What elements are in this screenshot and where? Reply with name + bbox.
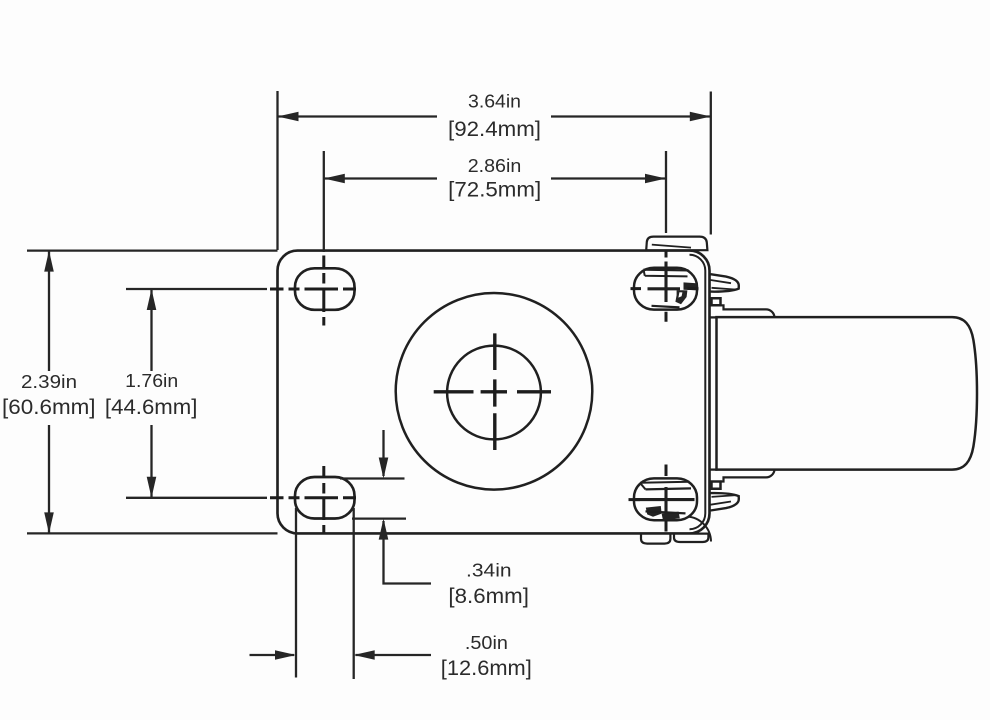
brake tab top face line [711, 280, 732, 283]
arrowhead 3.64 left [278, 112, 299, 122]
centerline slot top-left vertical [322, 256, 325, 326]
screw dark wedge lower right [675, 290, 687, 304]
extension line slot right edge down [353, 508, 355, 679]
svg-text:3.64in: 3.64in [468, 92, 521, 112]
centerlines [434, 333, 551, 450]
extension line slot centers left bottom [126, 497, 267, 499]
extension line screw top-right vertical [665, 151, 667, 233]
svg-text:.34in: .34in [466, 560, 512, 580]
svg-text:1.76in: 1.76in [125, 371, 178, 391]
svg-text:2.39in: 2.39in [21, 372, 77, 392]
brake tab top inner line [712, 288, 737, 290]
arrowhead 3.64 right [690, 112, 711, 122]
svg-text:[8.6mm]: [8.6mm] [448, 585, 529, 608]
arrowhead .34 up [379, 519, 389, 540]
arrowhead 2.39 bottom [44, 512, 54, 533]
svg-text:[92.4mm]: [92.4mm] [448, 118, 541, 141]
screw bottom slot line upper [640, 482, 690, 490]
dimension line 3.64in [278, 115, 711, 117]
screw bottom dark wedge right [662, 512, 680, 521]
centerline screw bottom-right vertical [665, 465, 668, 532]
screw bottom chord [646, 511, 686, 513]
fork bottom bend arc [687, 517, 711, 542]
extension line slot left edge down [295, 508, 297, 678]
centerline slot top-left horizontal [270, 288, 356, 291]
screw crosshair horizontal bar [648, 287, 681, 290]
fork foot lobe right (below plate) [674, 534, 708, 542]
screw dark wedge upper right [684, 282, 697, 290]
arrowhead .34 down [379, 458, 389, 479]
brake tab top [711, 274, 739, 291]
arrowhead 2.86 right [645, 174, 666, 184]
centerline slot bottom-left vertical [322, 466, 325, 533]
svg-text:[44.6mm]: [44.6mm] [105, 396, 198, 419]
svg-text:[60.6mm]: [60.6mm] [2, 396, 96, 419]
swivel raceway outer circle [396, 293, 593, 490]
arrowhead 1.76 bottom [147, 477, 157, 498]
screw bottom chord [652, 306, 680, 308]
arrowhead .50 left [354, 650, 375, 660]
arrowhead 1.76 top [147, 289, 157, 310]
wheel top edge left stub [711, 316, 718, 318]
brake tab bottom [711, 493, 739, 510]
fork foot lobe left (below plate) [641, 534, 670, 544]
dimension texts [2, 92, 541, 680]
screw bottom crosshair horizontal bar [636, 498, 695, 501]
screw bottom crosshair vertical bar [664, 487, 667, 513]
wheel bottom edge left stub [711, 468, 718, 470]
wheel body (top view, right side) [717, 317, 978, 470]
arrowheads [44, 112, 711, 660]
centerline screw top-right horizontal left dashes [631, 287, 699, 290]
center crosshair vertical [493, 333, 496, 450]
screw bottom dark wedge left [646, 506, 662, 517]
wheel hub bump top [712, 298, 721, 305]
wheel hub bump bottom [712, 482, 721, 489]
wheel hub step top [721, 305, 775, 317]
screw bottom slot line lower [646, 488, 692, 489]
centerline screw bottom-right horizontal left dashes [629, 498, 641, 501]
arrowhead .50 right [275, 650, 296, 660]
kingpin inner circle [447, 346, 541, 440]
extension line plate right top [710, 92, 712, 235]
extension line plate top to left [27, 249, 278, 251]
arrowhead 2.39 top [44, 251, 54, 272]
screw slot line upper [644, 268, 689, 271]
dimension line .34in upper [340, 477, 405, 479]
arrowhead 2.86 left [324, 174, 345, 184]
brake tab bottom inner line [712, 495, 737, 497]
screw slot line lower [644, 270, 688, 277]
centerline screw top-right vertical [665, 252, 668, 322]
centerline slot bottom-left horizontal [270, 496, 356, 499]
wheel hub step bottom [721, 469, 775, 481]
brake tab bottom face line [711, 502, 732, 505]
svg-text:2.86in: 2.86in [468, 156, 522, 176]
dimension line 2.86in [324, 177, 666, 179]
leader .34in arrow upper tail [382, 430, 384, 476]
slot hole top-left [295, 268, 355, 310]
screw crosshair vertical bar [664, 262, 667, 303]
screw head top-right outline [634, 268, 697, 310]
svg-text:.50in: .50in [465, 633, 508, 653]
svg-text:[12.6mm]: [12.6mm] [441, 657, 532, 680]
leader .34in arrow lower tail and elbow [384, 521, 432, 584]
screw head bottom-right outline [634, 478, 697, 520]
kingpin cap inner line [652, 245, 691, 248]
kingpin cap above plate [646, 237, 707, 251]
svg-text:[72.5mm]: [72.5mm] [448, 179, 541, 202]
extension line plate bottom to left [27, 532, 278, 534]
extension line slot top-left vertical [323, 151, 325, 252]
dimension graphics [27, 91, 711, 679]
dimension line 1.76in [150, 289, 152, 498]
dimension line .50in left tail [250, 654, 295, 656]
dimension line .50in right tail [356, 654, 432, 656]
dimension line .34in lower [352, 517, 406, 519]
slot hole bottom-left [295, 477, 355, 519]
extension line plate left top [276, 91, 278, 250]
mounting plate outline [278, 251, 710, 534]
dimension line 2.39in [48, 251, 50, 534]
center crosshair horizontal [434, 390, 551, 393]
fork bend inner line [690, 255, 706, 529]
extension line slot centers left top [126, 288, 267, 290]
